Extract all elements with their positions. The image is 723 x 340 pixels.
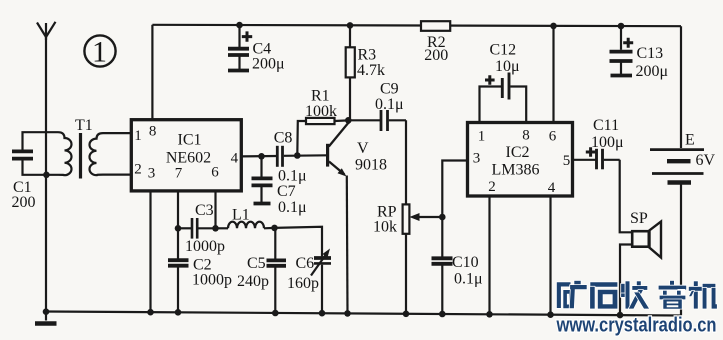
wire IC2 pin2 down to ground rail <box>488 196 490 314</box>
svg-text:0.1μ: 0.1μ <box>454 270 483 287</box>
wire IC1 pin3 down to ground rail <box>149 191 151 312</box>
capacitor C12 <box>480 42 527 123</box>
capacitor C7 <box>252 156 307 216</box>
inductor L1 <box>216 207 275 229</box>
svg-text:0.1μ: 0.1μ <box>278 167 307 184</box>
capacitor C3 <box>178 202 225 255</box>
svg-text:C5: C5 <box>247 255 266 272</box>
node rail junction C10 <box>439 311 446 318</box>
transformer T1 <box>46 117 132 179</box>
svg-text:www.crystalradio.cn: www.crystalradio.cn <box>556 315 717 337</box>
node rail junction C5 <box>272 310 279 317</box>
op IC2 LM386 box <box>468 123 573 197</box>
node R3/R1/collector/C9 junction <box>345 117 352 124</box>
svg-text:200: 200 <box>12 194 36 211</box>
svg-text:240p: 240p <box>237 273 269 290</box>
svg-text:6V: 6V <box>696 152 716 169</box>
svg-text:4: 4 <box>548 180 556 196</box>
svg-text:10k: 10k <box>373 219 397 236</box>
node pin6 on rail <box>550 23 557 30</box>
svg-text:4: 4 <box>231 151 239 167</box>
svg-text:9018: 9018 <box>355 157 387 174</box>
capacitor C8 <box>274 129 307 184</box>
svg-text:1000p: 1000p <box>192 272 232 289</box>
svg-text:NE602: NE602 <box>166 150 211 167</box>
svg-text:100k: 100k <box>305 103 337 120</box>
svg-text:V: V <box>357 140 369 157</box>
svg-text:C9: C9 <box>380 80 399 97</box>
capacitor C2 <box>168 228 232 312</box>
svg-text:10μ: 10μ <box>495 58 520 75</box>
wire C8 to base <box>284 154 328 157</box>
svg-text:160p: 160p <box>287 275 319 292</box>
svg-text:100μ: 100μ <box>591 134 624 151</box>
node C13 on rail <box>618 23 625 30</box>
wire IC1 pin7 down <box>177 191 179 228</box>
svg-text:C13: C13 <box>637 45 664 62</box>
svg-text:0.1μ: 0.1μ <box>278 199 307 216</box>
node rail junction C6 <box>319 310 326 317</box>
ground <box>35 308 57 323</box>
figure number 1 in circle <box>84 35 115 68</box>
resistor R2 <box>421 21 450 64</box>
svg-text:1: 1 <box>478 129 486 145</box>
svg-text:C8: C8 <box>274 129 293 146</box>
wire top supply rail <box>152 25 681 26</box>
node rail junction RP <box>403 311 410 318</box>
wire wiper junction up to IC2 pin3 <box>442 161 467 218</box>
wire IC1 pin4 to transistor base <box>241 155 276 158</box>
svg-text:IC2: IC2 <box>506 144 530 161</box>
wire IC1 pin8 riser to supply rail <box>151 25 153 120</box>
wire IC2 pin4 down to ground rail <box>549 196 551 315</box>
svg-text:7: 7 <box>175 166 183 182</box>
node C L1/C5/C6 junction <box>271 225 278 232</box>
node rail junction IC2 pin4 <box>547 311 554 318</box>
node rail junction IC2 pin2 <box>486 311 493 318</box>
capacitor C10 <box>432 217 483 314</box>
svg-text:T1: T1 <box>75 117 93 134</box>
svg-text:6: 6 <box>211 165 219 181</box>
svg-text:1: 1 <box>92 36 107 69</box>
antenna <box>37 22 56 40</box>
svg-text:IC1: IC1 <box>178 131 202 148</box>
svg-text:1: 1 <box>134 128 142 144</box>
node RP wiper junction <box>439 214 446 221</box>
capacitor C5 <box>237 228 286 313</box>
node B pin6/C3/L1 junction <box>212 225 219 232</box>
svg-text:E: E <box>685 132 695 149</box>
battery E 6V <box>650 26 716 315</box>
capacitor C13 <box>610 26 669 80</box>
svg-text:8: 8 <box>149 124 157 140</box>
capacitor C11 <box>573 117 624 169</box>
svg-text:1000p: 1000p <box>185 238 225 255</box>
node A pin7/C3/C2 junction <box>175 225 182 232</box>
svg-text:2: 2 <box>488 179 496 195</box>
svg-text:200μ: 200μ <box>252 56 285 73</box>
svg-text:C12: C12 <box>490 42 517 59</box>
node rail junction C2 <box>175 309 182 316</box>
node C4 on rail <box>236 22 243 29</box>
svg-text:C6: C6 <box>296 255 315 272</box>
wire IC1 pin6 down <box>214 191 216 228</box>
node rail junction speaker <box>617 312 624 319</box>
svg-text:C10: C10 <box>452 254 479 271</box>
wire antenna mast down to ground rail <box>45 37 47 312</box>
resistor R1 <box>297 88 348 156</box>
svg-text:3: 3 <box>148 166 156 182</box>
speaker SP <box>620 210 661 315</box>
svg-text:200μ: 200μ <box>636 63 669 80</box>
node C7 tap <box>258 153 265 160</box>
svg-text:4.7k: 4.7k <box>357 62 385 79</box>
wire IC2 pin6 riser to rail <box>552 26 554 123</box>
svg-text:200: 200 <box>424 47 448 64</box>
svg-text:LM386: LM386 <box>492 162 540 179</box>
op IC1 NE602 box <box>131 120 241 191</box>
svg-text:SP: SP <box>630 210 648 227</box>
transistor V 9018 <box>326 120 387 313</box>
resistor R3 <box>346 22 385 120</box>
svg-text:8: 8 <box>522 128 530 144</box>
node rail junction IC1 pin3 <box>147 309 154 316</box>
wire bottom ground rail <box>46 312 681 316</box>
svg-text:C3: C3 <box>195 202 214 219</box>
svg-text:L1: L1 <box>232 207 250 224</box>
svg-text:3: 3 <box>473 151 481 167</box>
svg-text:5: 5 <box>563 153 571 169</box>
svg-text:C11: C11 <box>593 117 619 134</box>
wire C11 down to speaker <box>620 160 633 233</box>
svg-text:0.1μ: 0.1μ <box>375 96 404 113</box>
node R1 tap on base wire <box>294 152 301 159</box>
potentiometer RP <box>373 204 442 314</box>
capacitor C6 variable <box>275 227 332 313</box>
capacitor C1 <box>12 132 47 211</box>
node T1/C1/ground junction <box>43 172 50 179</box>
capacitor C9 <box>348 80 406 131</box>
capacitor C4 <box>228 25 285 73</box>
svg-text:6: 6 <box>549 129 557 145</box>
node rail junction emitter <box>344 310 351 317</box>
wire C9 down to RP <box>405 120 407 204</box>
svg-text:C7: C7 <box>277 183 296 200</box>
watermark logo text <box>557 281 717 309</box>
svg-text:2: 2 <box>134 162 142 178</box>
